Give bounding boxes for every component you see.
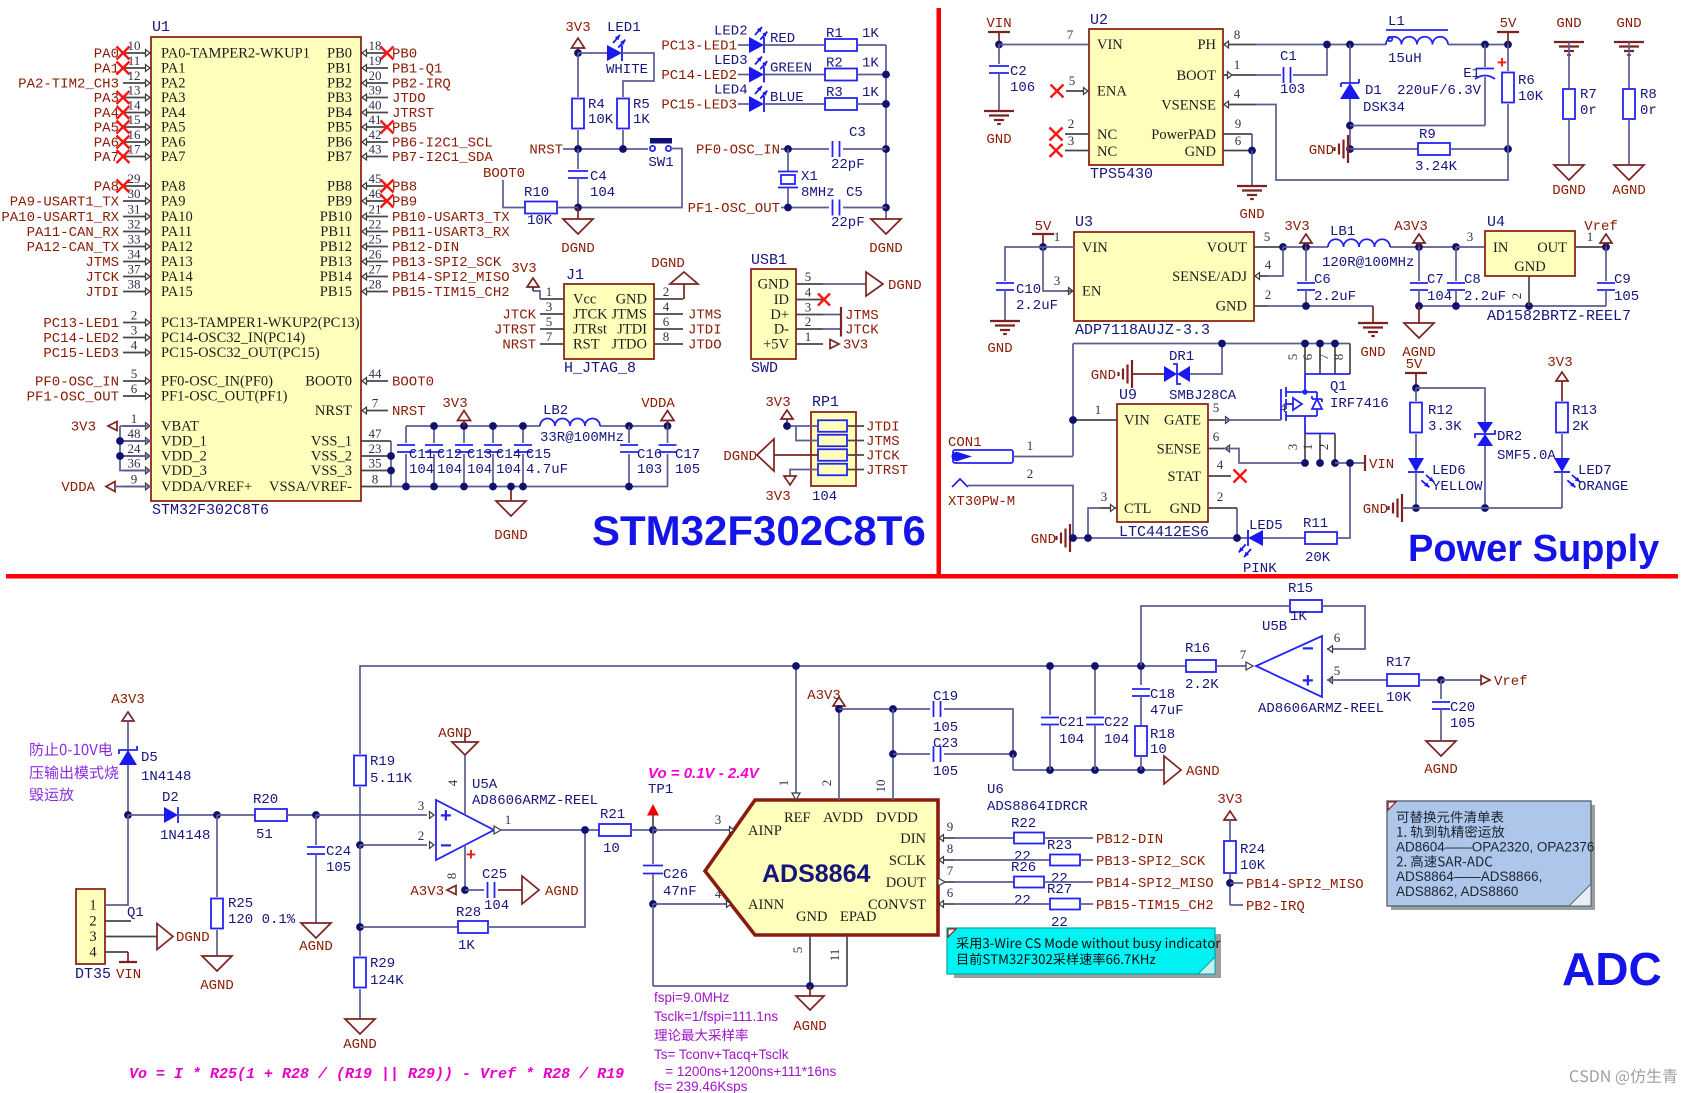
svg-text:1: 1 [131, 411, 138, 426]
svg-text:AINN: AINN [748, 897, 785, 913]
svg-text:AD8606ARMZ-REEL: AD8606ARMZ-REEL [1258, 701, 1384, 717]
U5B + input pin 5 to R17 [1328, 677, 1333, 684]
svg-text:JTRst: JTRst [573, 322, 607, 338]
U1 pin 20 PB2 [361, 82, 388, 84]
svg-text:C2: C2 [1010, 64, 1027, 80]
svg-text:3: 3 [418, 798, 425, 813]
svg-text:PB9: PB9 [327, 194, 352, 210]
svg-text:X1: X1 [801, 169, 818, 185]
svg-text:9: 9 [1235, 116, 1242, 131]
svg-text:R5: R5 [633, 97, 650, 113]
ground DGND right bus [871, 219, 901, 234]
svg-text:3: 3 [1101, 489, 1108, 504]
svg-text:JTCK: JTCK [573, 307, 608, 323]
svg-text:VSENSE: VSENSE [1161, 98, 1216, 114]
svg-text:SW1: SW1 [648, 155, 673, 171]
U1 pin 22 PB11 [361, 231, 388, 233]
svg-text:PF1-OSC_OUT(PF1): PF1-OSC_OUT(PF1) [161, 389, 288, 405]
resistor R17 10K [1387, 674, 1419, 686]
svg-text:JTDI: JTDI [85, 285, 119, 301]
svg-text:5: 5 [1264, 229, 1271, 244]
U3 GND pin 2 [1254, 305, 1268, 307]
ground DGND RP1 [757, 439, 774, 471]
svg-text:U3: U3 [1075, 214, 1093, 231]
svg-text:LED3: LED3 [714, 53, 748, 69]
svg-text:PB0: PB0 [327, 46, 352, 62]
svg-text:8: 8 [372, 472, 379, 487]
svg-text:Vref: Vref [1584, 219, 1618, 235]
svg-text:GND: GND [1031, 532, 1056, 548]
ADS DVDD pin 10 [892, 754, 894, 800]
capacitor C10 2.2uF [996, 282, 1014, 284]
svg-text:3V3: 3V3 [565, 20, 590, 36]
resistor R15 1K feedback [1290, 600, 1322, 612]
wire USB GND to DGND [823, 283, 866, 285]
U1 pin 46 PB9 [361, 200, 388, 202]
svg-text:4: 4 [445, 779, 460, 786]
svg-text:1: 1 [1095, 402, 1102, 417]
svg-text:10K: 10K [588, 112, 614, 128]
svg-text:PB12-DIN: PB12-DIN [392, 240, 459, 256]
svg-text:3V3: 3V3 [1547, 355, 1572, 371]
svg-text:0r: 0r [1580, 103, 1597, 119]
feedback top rail [360, 666, 1186, 754]
svg-text:PINK: PINK [1243, 561, 1277, 577]
capacitor C18 47uF [1140, 666, 1142, 685]
svg-text:CONVST: CONVST [868, 897, 926, 913]
U1 pin 35 VSS_3 [361, 470, 391, 472]
svg-text:5: 5 [805, 269, 812, 284]
svg-text:1K: 1K [1290, 609, 1307, 625]
svg-text:2: 2 [1316, 444, 1331, 451]
svg-text:ID: ID [774, 292, 789, 308]
U2 ENA pin nc [1066, 90, 1089, 92]
resistor R24 10K [1224, 841, 1236, 873]
svg-text:3.24K: 3.24K [1415, 159, 1458, 175]
svg-text:DGND: DGND [1552, 183, 1586, 199]
svg-text:2: 2 [1265, 287, 1272, 302]
svg-text:2: 2 [819, 780, 834, 787]
svg-text:105: 105 [1450, 716, 1475, 732]
svg-text:4: 4 [715, 886, 722, 901]
svg-text:PA7: PA7 [94, 150, 119, 166]
svg-text:6: 6 [1334, 630, 1341, 645]
svg-text:AGND: AGND [793, 1019, 827, 1035]
svg-text:R17: R17 [1386, 655, 1411, 671]
svg-text:PA0-TAMPER2-WKUP1: PA0-TAMPER2-WKUP1 [161, 46, 310, 62]
svg-text:C15: C15 [526, 447, 551, 463]
ground DGND below cap bank [510, 487, 512, 502]
svg-text:VIN: VIN [116, 967, 141, 983]
svg-text:104: 104 [1059, 732, 1084, 748]
svg-text:R15: R15 [1288, 581, 1313, 597]
inductor L1 15uH [1386, 29, 1448, 31]
wire AINN [653, 903, 730, 905]
svg-text:47: 47 [369, 426, 383, 441]
U2 PH pin 8 [1223, 44, 1256, 46]
svg-text:NRST: NRST [529, 143, 563, 159]
svg-text:PA0: PA0 [94, 47, 119, 63]
svg-text:5: 5 [1285, 354, 1300, 361]
resistor R5 1K [617, 99, 629, 129]
svg-text:EPAD: EPAD [840, 909, 877, 925]
led LED6 YELLOW [1408, 458, 1424, 472]
U1 pin 5 PF0-OSC_IN(PF0) [123, 380, 151, 382]
ADS DOUT pin 7 R26 [938, 881, 954, 883]
wire VIN to U2 [999, 44, 1089, 46]
resistor R9 3.24K [1418, 143, 1450, 155]
svg-text:JTDI: JTDI [617, 322, 647, 338]
svg-text:PB14-SPI2_MISO: PB14-SPI2_MISO [1246, 877, 1364, 893]
svg-text:16: 16 [128, 127, 142, 142]
svg-text:= 1200ns+1200ns+111*16ns: = 1200ns+1200ns+111*16ns [654, 1064, 837, 1079]
svg-text:3: 3 [715, 812, 722, 827]
svg-text:LED1: LED1 [607, 20, 641, 36]
U9 CTL pin 3 [1100, 507, 1117, 509]
svg-text:8: 8 [444, 873, 459, 880]
ADS AINP pin 3 [730, 827, 735, 834]
svg-text:GND: GND [1309, 143, 1334, 159]
resistor R16 2.2K [1186, 660, 1216, 672]
svg-text:105: 105 [675, 462, 700, 478]
svg-text:1N4148: 1N4148 [141, 769, 191, 785]
svg-text:PA3: PA3 [94, 91, 119, 107]
svg-text:PC15-LED3: PC15-LED3 [43, 346, 119, 362]
svg-text:Q1: Q1 [127, 905, 144, 921]
svg-text:PB13-SPI2_SCK: PB13-SPI2_SCK [392, 255, 502, 271]
svg-text:3: 3 [1285, 444, 1300, 451]
svg-text:PB14-SPI2_MISO: PB14-SPI2_MISO [392, 270, 510, 286]
svg-text:R21: R21 [600, 807, 625, 823]
svg-text:Vref: Vref [1494, 674, 1528, 690]
svg-text:U2: U2 [1090, 12, 1108, 29]
svg-text:1: 1 [546, 284, 553, 299]
mcu U1 body [151, 37, 361, 501]
svg-text:VDDA: VDDA [61, 480, 95, 496]
svg-text:JTMS: JTMS [85, 255, 119, 271]
svg-text:4: 4 [1234, 86, 1241, 101]
svg-text:13: 13 [128, 83, 141, 98]
svg-text:LB1: LB1 [1330, 224, 1355, 240]
svg-text:10K: 10K [1386, 690, 1412, 706]
U1 pin 34 PA13 [123, 261, 151, 263]
svg-text:GND: GND [1091, 368, 1116, 384]
svg-text:AD8606ARMZ-REEL: AD8606ARMZ-REEL [472, 793, 598, 809]
resistor R6 10K [1507, 45, 1509, 72]
note cyan 3-wire CS mode [951, 931, 959, 939]
regulator U3 ADP7118AUJZ-3.3 [1074, 232, 1254, 321]
resistor R13 2K [1556, 403, 1568, 433]
U9 SENSE pin 6 [1208, 448, 1224, 450]
U1 pin 45 PB8 [361, 185, 388, 187]
capacitor C9 105 [1605, 247, 1607, 281]
svg-text:3: 3 [1068, 133, 1075, 148]
svg-text:18: 18 [369, 38, 382, 53]
svg-text:PA9-USART1_TX: PA9-USART1_TX [10, 195, 120, 211]
AGND rail under C7 C8 [1419, 305, 1606, 307]
svg-text:AGND: AGND [343, 1037, 377, 1053]
svg-text:PB2-IRQ: PB2-IRQ [1246, 899, 1305, 915]
svg-text:PF1-OSC_OUT: PF1-OSC_OUT [27, 390, 119, 406]
svg-text:VDDA: VDDA [641, 396, 675, 412]
svg-text:U5A: U5A [472, 777, 498, 793]
svg-text:42: 42 [369, 127, 382, 142]
svg-text:1: 1 [89, 898, 96, 914]
svg-text:120R@100MHz: 120R@100MHz [1322, 255, 1414, 271]
svg-text:PB1: PB1 [327, 61, 352, 77]
svg-text:C24: C24 [326, 844, 351, 860]
transistor Q1 IRF7416 pins 5-8 [1304, 344, 1306, 375]
svg-text:SENSE: SENSE [1157, 442, 1201, 458]
svg-text:5V: 5V [1500, 16, 1517, 32]
svg-text:C17: C17 [675, 447, 700, 463]
svg-text:DOUT: DOUT [886, 875, 926, 891]
3V3 arrow down RP1 row4 [790, 470, 818, 477]
svg-text:PA7: PA7 [161, 149, 185, 165]
wire SW1 loop to C4/R10 node [578, 149, 682, 208]
svg-text:D1: D1 [1365, 83, 1382, 99]
U1 pin 43 PB7 [361, 156, 388, 158]
DT35 pin 3 DGND [105, 936, 157, 938]
svg-text:37: 37 [128, 262, 142, 277]
svg-text:VDD_1: VDD_1 [161, 434, 207, 450]
svg-text:SWD: SWD [751, 360, 778, 377]
svg-text:R28: R28 [456, 905, 481, 921]
svg-text:JTDO: JTDO [612, 337, 647, 353]
DT35 pin 4 VIN power [105, 951, 128, 953]
svg-text:PB14-SPI2_MISO: PB14-SPI2_MISO [1096, 876, 1214, 892]
AGND rail decoupling [1013, 769, 1164, 771]
svg-text:17: 17 [128, 142, 142, 157]
svg-text:2: 2 [89, 914, 96, 930]
capacitor C21 104 [1049, 666, 1051, 715]
svg-text:CTL: CTL [1124, 501, 1151, 517]
PH rail wire [1256, 44, 1386, 46]
svg-text:34: 34 [128, 247, 142, 262]
svg-text:22pF: 22pF [831, 215, 865, 231]
svg-text:AINP: AINP [748, 823, 782, 839]
svg-text:C25: C25 [482, 867, 507, 883]
svg-text:C10: C10 [1016, 282, 1041, 298]
svg-text:GND: GND [1239, 207, 1264, 223]
wire 5V to C10 [1005, 247, 1043, 281]
svg-text:PB12-DIN: PB12-DIN [1096, 832, 1163, 848]
U1 pin 3 PC14-OSC32_IN(PC14) [123, 337, 151, 339]
U1 pin 4 PC15-OSC32_OUT(PC15) [123, 352, 151, 354]
svg-text:4.7uF: 4.7uF [526, 462, 568, 478]
U1 pin 40 PB4 [361, 112, 388, 114]
svg-text:C7: C7 [1427, 272, 1444, 288]
svg-text:51: 51 [256, 827, 273, 843]
svg-text:DGND: DGND [494, 528, 528, 544]
svg-text:XT30PW-M: XT30PW-M [948, 494, 1015, 510]
svg-text:D5: D5 [141, 750, 158, 766]
svg-text:7: 7 [1067, 27, 1074, 42]
svg-text:STM32F302C8T6: STM32F302C8T6 [592, 507, 926, 554]
svg-text:NC: NC [1097, 144, 1117, 160]
capacitor C19 105 [839, 708, 930, 710]
svg-text:1: 1 [505, 812, 512, 827]
svg-text:R6: R6 [1518, 73, 1535, 89]
svg-text:PA1: PA1 [94, 62, 119, 78]
U1 pin 17 PA7 [123, 156, 151, 158]
svg-text:ENA: ENA [1097, 84, 1127, 100]
resistor R19 5.11K [354, 756, 366, 786]
svg-text:LED4: LED4 [714, 83, 748, 99]
svg-text:1: 1 [1054, 229, 1061, 244]
svg-text:STM32F302C8T6: STM32F302C8T6 [152, 502, 269, 519]
svg-text:2.2uF: 2.2uF [1314, 289, 1356, 305]
svg-text:R19: R19 [370, 754, 395, 770]
svg-text:14: 14 [128, 98, 142, 113]
svg-text:R2: R2 [826, 56, 843, 72]
U1 pin 24 VDD_2 [123, 455, 151, 457]
svg-text:PA9: PA9 [161, 194, 185, 210]
svg-text:PA14: PA14 [161, 269, 193, 285]
svg-text:VBAT: VBAT [161, 419, 199, 435]
3V3 bus wire to VDD pins [120, 425, 151, 427]
svg-text:VOUT: VOUT [1207, 240, 1247, 256]
E1 bottom wire to D1 [1350, 125, 1485, 127]
svg-text:2: 2 [1217, 489, 1224, 504]
U1 pin 28 PB15 [361, 291, 388, 293]
svg-text:5V: 5V [1035, 219, 1052, 235]
resistor R3 1K [764, 103, 825, 105]
svg-text:U6: U6 [987, 782, 1004, 798]
ADS SCLK pin 8 R23 [938, 859, 954, 861]
svg-text:ORANGE: ORANGE [1578, 479, 1628, 495]
red section divider horizontal [6, 574, 1678, 579]
svg-text:C9: C9 [1614, 272, 1631, 288]
svg-text:PB0: PB0 [392, 47, 417, 63]
svg-text:33R@100MHz: 33R@100MHz [540, 430, 624, 446]
svg-text:4: 4 [1217, 457, 1224, 472]
svg-text:R4: R4 [588, 97, 605, 113]
svg-text:28: 28 [369, 277, 382, 292]
svg-text:AGND: AGND [1424, 762, 1458, 778]
svg-text:−: − [440, 835, 452, 857]
svg-text:106: 106 [1010, 80, 1035, 96]
svg-text:ADS8864——ADS8866,: ADS8864——ADS8866, [1396, 869, 1542, 884]
svg-text:7: 7 [372, 396, 379, 411]
diode D1 DSK34 schottky [1349, 45, 1351, 84]
svg-text:VIN: VIN [1097, 37, 1123, 53]
svg-text:Tsclk=1/fspi=111.1ns: Tsclk=1/fspi=111.1ns [654, 1009, 778, 1024]
tvs DR2 SMF5.0A [1416, 388, 1485, 422]
svg-text:PA5: PA5 [161, 120, 185, 136]
svg-text:5: 5 [1334, 663, 1341, 678]
net JTMS on D+ [823, 314, 841, 316]
svg-text:DT35: DT35 [75, 966, 111, 983]
svg-text:3V3: 3V3 [511, 261, 536, 277]
U4 OUT pin 1 [1575, 246, 1606, 248]
svg-text:AGND: AGND [1612, 183, 1646, 199]
vertical wire VIN net [1072, 344, 1074, 457]
svg-text:PA1: PA1 [161, 61, 185, 77]
capacitor C1 103 boot [1256, 74, 1281, 76]
U2 GND pin 6 [1223, 150, 1254, 152]
svg-text:C12: C12 [437, 447, 462, 463]
svg-text:2: 2 [131, 308, 138, 323]
svg-text:L1: L1 [1388, 14, 1405, 30]
svg-text:LB2: LB2 [543, 403, 568, 419]
svg-text:2.2uF: 2.2uF [1016, 298, 1058, 314]
svg-text:−: − [1302, 638, 1314, 660]
svg-text:AD1582BRTZ-REEL7: AD1582BRTZ-REEL7 [1487, 308, 1631, 325]
svg-text:C5: C5 [846, 185, 863, 201]
svg-text:IN: IN [1493, 240, 1509, 256]
svg-text:+: + [440, 805, 452, 827]
svg-text:PC15-OSC32_OUT(PC15): PC15-OSC32_OUT(PC15) [161, 345, 320, 361]
svg-text:36: 36 [128, 456, 142, 471]
svg-text:PA3: PA3 [161, 90, 185, 106]
svg-text:JTRST: JTRST [866, 463, 908, 479]
U1 pin 8 VSSA/VREF- [361, 486, 391, 488]
svg-text:PA12-CAN_TX: PA12-CAN_TX [27, 240, 120, 256]
svg-text:40: 40 [369, 98, 382, 113]
svg-text:BOOT0: BOOT0 [305, 374, 352, 390]
wire U4 in [1456, 246, 1485, 248]
svg-text:105: 105 [326, 860, 351, 876]
svg-text:NRST: NRST [502, 338, 536, 354]
pushbutton SW1 [650, 138, 672, 144]
svg-text:RST: RST [573, 337, 600, 353]
svg-text:H_JTAG_8: H_JTAG_8 [564, 360, 636, 377]
svg-text:SCLK: SCLK [889, 853, 927, 869]
ferrite bead LB1 120R [1328, 239, 1390, 247]
U1 pin 16 PA6 [123, 141, 151, 143]
U1 pin 21 PB10 [361, 216, 388, 218]
wire LB1 to A3V3 and U4 [1390, 246, 1456, 248]
svg-text:3: 3 [1054, 273, 1061, 288]
vref U4 AD1582 [1485, 231, 1575, 276]
U1 pin 18 PB0 [361, 52, 388, 54]
capacitor C11 [405, 426, 407, 443]
svg-text:7: 7 [1316, 353, 1331, 360]
U1 pin 48 VDD_1 [123, 440, 151, 442]
svg-text:VIN: VIN [1369, 457, 1394, 473]
svg-text:1: 1 [805, 329, 812, 344]
capacitor C7 104 [1418, 247, 1420, 281]
svg-text:47nF: 47nF [663, 884, 697, 900]
svg-text:DSK34: DSK34 [1363, 100, 1405, 116]
svg-text:8MHz: 8MHz [801, 185, 835, 201]
ADS CONVST pin 6 R27 [938, 903, 954, 905]
svg-text:RP1: RP1 [812, 394, 839, 411]
resistor R21 10 [599, 824, 631, 836]
capacitor C3 22pF [781, 148, 829, 150]
wire LED1 to R5 [622, 53, 654, 97]
svg-text:104: 104 [484, 898, 509, 914]
svg-text:DVDD: DVDD [876, 810, 918, 826]
svg-text:9: 9 [131, 472, 138, 487]
svg-text:10: 10 [1150, 742, 1167, 758]
svg-text:103: 103 [1280, 82, 1305, 98]
svg-text:5: 5 [1213, 400, 1220, 415]
svg-text:15: 15 [128, 112, 141, 127]
capacitor C20 105 [1440, 680, 1442, 699]
ADS DIN pin 9 R22 [938, 837, 954, 839]
svg-text:R12: R12 [1428, 403, 1453, 419]
U1 pin 6 PF1-OSC_OUT(PF1) [123, 395, 151, 397]
svg-text:41: 41 [369, 112, 382, 127]
svg-text:1: 1 [1234, 57, 1241, 72]
svg-text:fs= 239.46Ksps: fs= 239.46Ksps [654, 1079, 748, 1093]
VSS bus wire [390, 441, 392, 487]
regulator U2 TPS5430 [1089, 29, 1223, 165]
USB1 pin 3 D+ [796, 314, 823, 316]
svg-text:GND: GND [616, 292, 647, 308]
